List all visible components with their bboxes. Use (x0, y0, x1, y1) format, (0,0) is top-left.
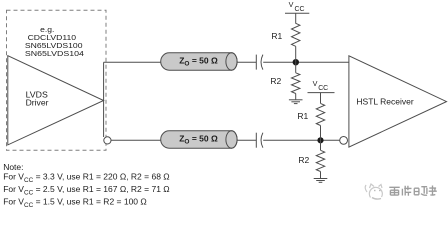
svg-text:CC: CC (295, 6, 305, 13)
wire cap to receiver top (263, 61, 349, 63)
resistor R2 top (292, 73, 300, 94)
wire junction to R2 top (295, 62, 297, 73)
wire cap to receiver bottom (263, 139, 340, 141)
node bottom junction (317, 137, 323, 143)
svg-text:SN65LVDS104: SN65LVDS104 (25, 49, 84, 58)
svg-text:V: V (289, 0, 294, 9)
wire driver output bar (103, 62, 105, 137)
svg-text:R2: R2 (298, 155, 309, 165)
node receiver input bubble (340, 137, 348, 145)
svg-text:R1: R1 (271, 31, 282, 41)
dashed enclosure box (7, 10, 107, 150)
capacitor bottom coupling (256, 133, 263, 148)
wire top output to line (104, 61, 161, 63)
svg-text:CC: CC (318, 85, 328, 92)
wire R2 to ground (295, 94, 297, 100)
capacitor top coupling (256, 55, 263, 70)
resistor R1 bottom (316, 103, 324, 125)
wire R1 to junction (295, 46, 297, 62)
resistor R1 top (292, 23, 300, 46)
wire bottom line to cap (237, 139, 256, 141)
wire junction to R2 bottom (320, 140, 322, 150)
transmission line Z0=50 bottom cylinder (161, 131, 237, 148)
watermark logo (365, 184, 382, 199)
wire R1 to junction bottom (320, 126, 322, 141)
transmission line Z0=50 top cylinder (161, 53, 237, 70)
op-amp U1 LVDS driver triangle (8, 56, 104, 145)
svg-text:Note:: Note: (3, 162, 23, 172)
svg-text:R2: R2 (270, 76, 281, 86)
label e.g. device list (25, 25, 84, 58)
label LVDS Driver (26, 91, 49, 108)
ground top termination (289, 100, 303, 104)
svg-text:V: V (313, 79, 318, 88)
wire R2 to ground bottom (320, 172, 322, 179)
svg-text:R1: R1 (297, 111, 308, 121)
svg-text:Driver: Driver (26, 99, 49, 108)
watermark text (389, 186, 437, 196)
note text block (3, 162, 169, 209)
power VCC top (285, 0, 309, 24)
resistor R2 bottom (316, 150, 324, 171)
node top junction (293, 59, 299, 65)
wire top line to cap (237, 61, 256, 63)
node driver inverted output bubble (104, 137, 111, 144)
op-amp U2 HSTL receiver triangle (349, 56, 447, 147)
svg-text:HSTL Receiver: HSTL Receiver (356, 96, 413, 106)
power VCC bottom (308, 79, 335, 103)
wire bottom output to line (111, 139, 161, 141)
ground bottom termination (314, 179, 328, 183)
